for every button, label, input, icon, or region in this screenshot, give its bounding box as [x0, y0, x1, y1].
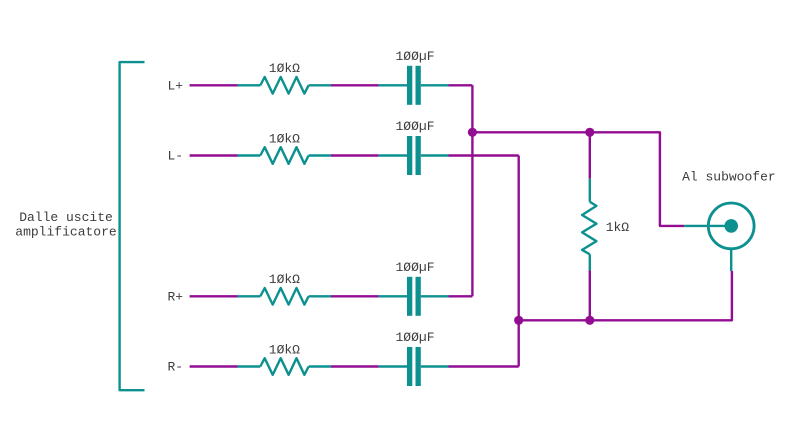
svg-text:L-: L-	[168, 149, 184, 164]
svg-text:1ØkΩ: 1ØkΩ	[269, 131, 300, 146]
svg-text:R-: R-	[168, 360, 184, 375]
svg-text:R+: R+	[168, 290, 184, 305]
svg-text:Dalle uscite: Dalle uscite	[19, 210, 113, 225]
svg-text:1ØØµF: 1ØØµF	[395, 49, 434, 64]
svg-text:L+: L+	[168, 79, 184, 94]
svg-text:1ØØµF: 1ØØµF	[395, 119, 434, 134]
svg-text:1ØkΩ: 1ØkΩ	[269, 61, 300, 76]
svg-text:amplificatore: amplificatore	[15, 225, 116, 240]
svg-text:1kΩ: 1kΩ	[606, 220, 630, 235]
svg-text:1ØØµF: 1ØØµF	[395, 330, 434, 345]
svg-text:1ØkΩ: 1ØkΩ	[269, 342, 300, 357]
svg-text:1ØkΩ: 1ØkΩ	[269, 272, 300, 287]
svg-text:1ØØµF: 1ØØµF	[395, 260, 434, 275]
svg-text:Al subwoofer: Al subwoofer	[682, 170, 776, 185]
